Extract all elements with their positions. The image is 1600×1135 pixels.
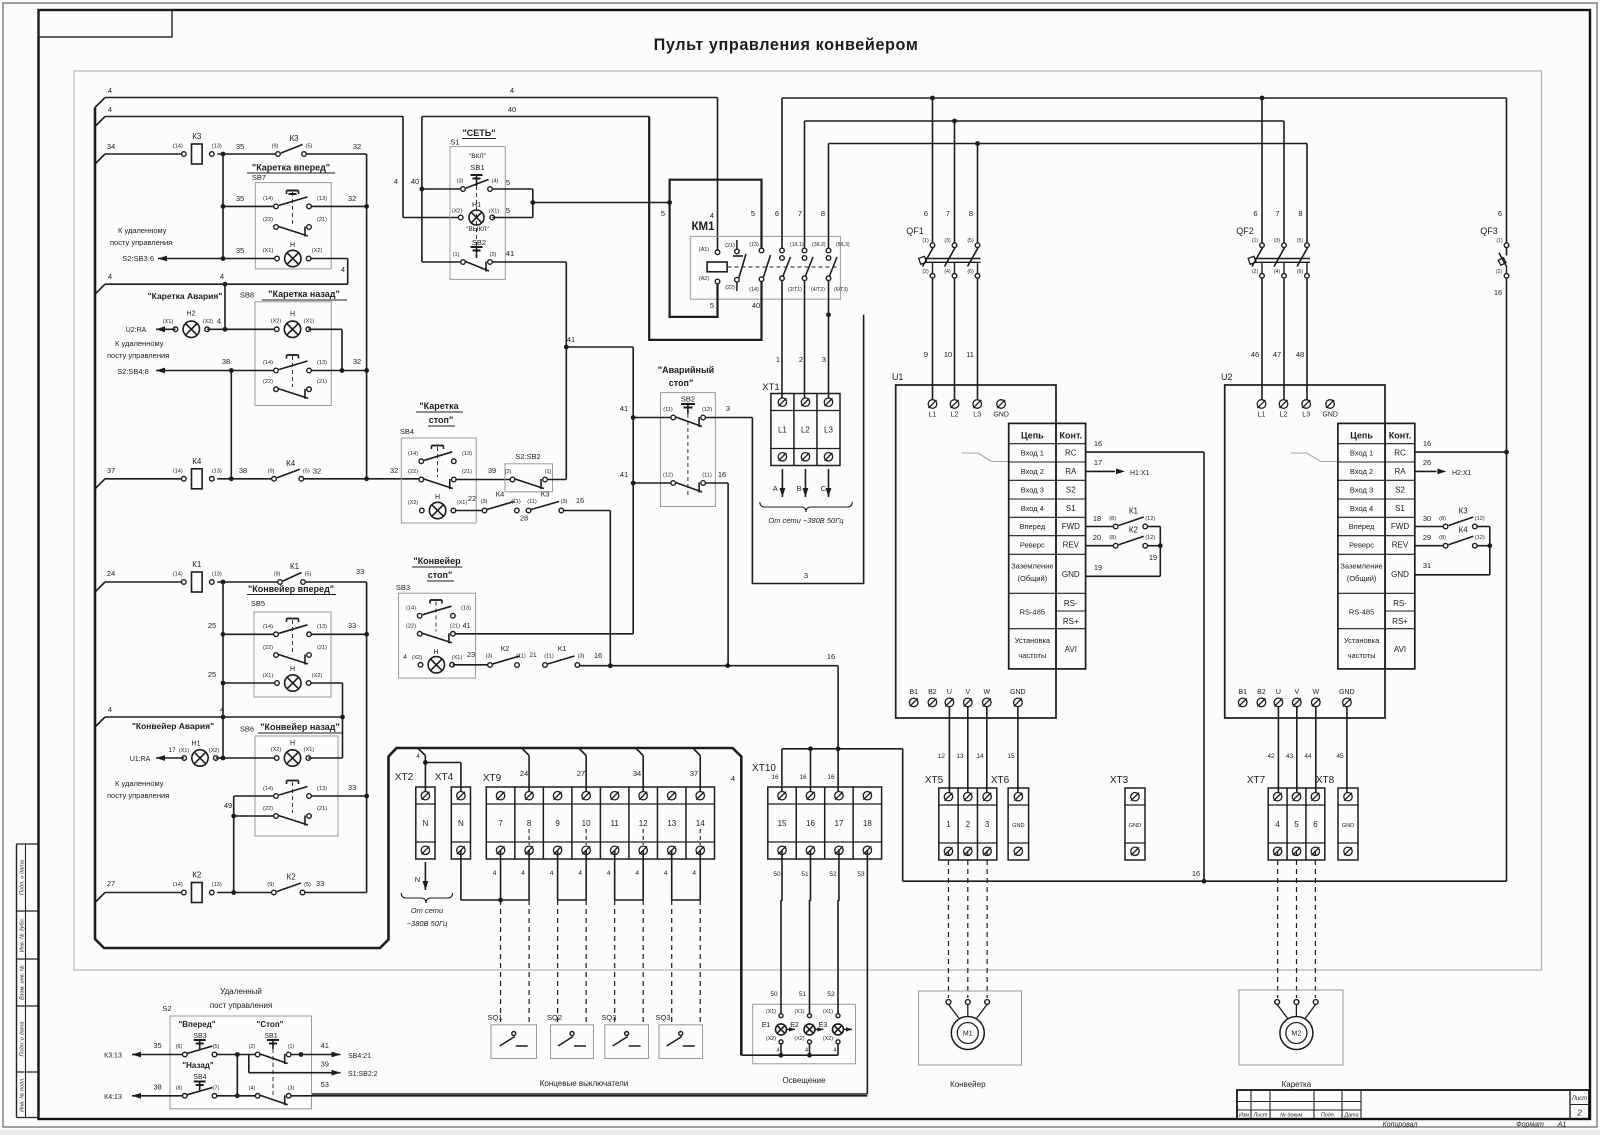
svg-text:(Х2): (Х2) <box>794 1036 804 1042</box>
svg-text:А1: А1 <box>1557 1122 1567 1129</box>
svg-text:L2: L2 <box>951 412 959 419</box>
svg-text:S2: S2 <box>1066 485 1076 494</box>
svg-text:частоты: частоты <box>1018 651 1046 660</box>
svg-text:Конвейер: Конвейер <box>950 1080 986 1089</box>
svg-text:"Стоп": "Стоп" <box>257 1020 284 1029</box>
svg-text:Е2: Е2 <box>790 1022 799 1029</box>
svg-text:К2: К2 <box>501 644 510 653</box>
svg-text:(14): (14) <box>263 196 273 202</box>
svg-text:33: 33 <box>348 621 356 630</box>
svg-text:24: 24 <box>107 569 115 578</box>
svg-text:REV: REV <box>1392 541 1409 550</box>
svg-text:S1:SB2:2: S1:SB2:2 <box>348 1071 378 1078</box>
svg-text:(11): (11) <box>663 407 673 413</box>
svg-text:(2): (2) <box>1252 269 1259 275</box>
svg-text:(9): (9) <box>274 572 281 578</box>
svg-text:Реверс: Реверс <box>1349 541 1374 550</box>
svg-text:N: N <box>423 819 429 828</box>
svg-text:"ВКЛ": "ВКЛ" <box>469 153 487 160</box>
svg-text:N: N <box>458 819 464 828</box>
svg-text:(13): (13) <box>317 360 327 366</box>
svg-text:(2): (2) <box>922 269 929 275</box>
svg-text:Н: Н <box>290 666 295 673</box>
svg-text:S1: S1 <box>450 138 459 147</box>
svg-text:(4): (4) <box>249 1086 256 1092</box>
svg-text:К4: К4 <box>286 459 296 468</box>
svg-text:(1): (1) <box>545 469 552 475</box>
svg-text:(Х1): (Х1) <box>823 1009 833 1015</box>
svg-text:(5): (5) <box>306 144 313 150</box>
svg-text:(6): (6) <box>176 1044 183 1050</box>
svg-text:"Каретка Авария": "Каретка Авария" <box>148 291 223 301</box>
svg-text:19: 19 <box>1149 553 1157 562</box>
svg-text:(3): (3) <box>288 1086 295 1092</box>
svg-text:(8): (8) <box>176 1086 183 1092</box>
svg-text:5: 5 <box>1294 820 1299 829</box>
svg-text:(3/L2): (3/L2) <box>812 242 826 248</box>
svg-text:4: 4 <box>510 86 514 95</box>
svg-text:М2: М2 <box>1292 1031 1302 1038</box>
svg-text:ХТ2: ХТ2 <box>395 772 414 783</box>
svg-text:(9): (9) <box>267 882 274 888</box>
svg-text:(22): (22) <box>408 469 418 475</box>
svg-text:GND: GND <box>1012 823 1024 829</box>
svg-text:Инв. № дубл.: Инв. № дубл. <box>20 918 26 952</box>
svg-text:L3: L3 <box>1302 412 1310 419</box>
svg-text:(13): (13) <box>749 242 759 248</box>
svg-text:41: 41 <box>620 470 628 479</box>
svg-text:4: 4 <box>692 870 696 877</box>
svg-text:(13): (13) <box>317 786 327 792</box>
svg-text:16: 16 <box>718 470 726 479</box>
svg-text:Цепь: Цепь <box>1350 431 1373 441</box>
svg-text:L1: L1 <box>1258 412 1266 419</box>
svg-text:48: 48 <box>1296 350 1304 359</box>
svg-text:(12): (12) <box>1475 516 1485 522</box>
svg-text:К3:13: К3:13 <box>104 1053 122 1060</box>
svg-text:19: 19 <box>1094 563 1102 572</box>
svg-text:U2:RA: U2:RA <box>126 327 147 334</box>
svg-text:RC: RC <box>1394 449 1406 458</box>
svg-text:(14): (14) <box>263 786 273 792</box>
svg-text:37: 37 <box>107 466 115 475</box>
svg-text:М1: М1 <box>963 1031 973 1038</box>
svg-text:V: V <box>1294 689 1299 696</box>
svg-text:43: 43 <box>1286 753 1294 760</box>
svg-text:33: 33 <box>316 879 324 888</box>
svg-text:"СЕТЬ": "СЕТЬ" <box>462 128 495 138</box>
svg-text:40: 40 <box>752 301 760 310</box>
svg-text:(8): (8) <box>1439 535 1446 541</box>
svg-text:17: 17 <box>168 747 176 754</box>
svg-text:Вперед: Вперед <box>1019 522 1045 531</box>
svg-text:Вход 3: Вход 3 <box>1021 485 1044 494</box>
svg-text:(3): (3) <box>944 238 951 244</box>
svg-text:25: 25 <box>208 670 216 679</box>
svg-text:4: 4 <box>220 272 224 281</box>
svg-text:(2): (2) <box>1496 269 1503 275</box>
svg-text:"Вперед": "Вперед" <box>178 1020 215 1029</box>
svg-text:Установка: Установка <box>1344 636 1380 645</box>
svg-text:51: 51 <box>801 871 809 878</box>
svg-text:3: 3 <box>822 355 826 364</box>
svg-text:U2: U2 <box>1221 372 1233 382</box>
svg-text:4: 4 <box>731 774 735 783</box>
svg-text:"Конвейер Авария": "Конвейер Авария" <box>132 721 214 731</box>
svg-text:L3: L3 <box>824 426 833 435</box>
svg-text:Вход 1: Вход 1 <box>1350 449 1373 458</box>
svg-text:(14): (14) <box>173 882 183 888</box>
svg-text:(8): (8) <box>1109 516 1116 522</box>
svg-text:(13): (13) <box>212 882 222 888</box>
svg-text:Н1:Х1: Н1:Х1 <box>1130 470 1150 477</box>
svg-text:(21): (21) <box>462 469 472 475</box>
svg-text:5: 5 <box>506 178 510 187</box>
svg-text:(Х1): (Х1) <box>304 747 315 753</box>
svg-text:ХТ7: ХТ7 <box>1247 775 1266 786</box>
svg-text:К удаленному: К удаленному <box>115 339 164 348</box>
svg-text:REV: REV <box>1063 541 1080 550</box>
svg-text:34: 34 <box>633 769 641 778</box>
svg-text:V: V <box>965 689 970 696</box>
svg-text:41: 41 <box>462 621 470 630</box>
svg-text:8: 8 <box>527 819 532 828</box>
svg-text:Дата: Дата <box>1343 1113 1358 1119</box>
svg-text:(2): (2) <box>490 252 497 258</box>
svg-text:(Х2): (Х2) <box>312 673 323 679</box>
svg-text:"Конвейер вперед": "Конвейер вперед" <box>248 584 334 594</box>
svg-text:3: 3 <box>726 404 730 413</box>
svg-text:(Х1): (Х1) <box>794 1009 804 1015</box>
svg-text:35: 35 <box>236 246 244 255</box>
svg-text:(А1): (А1) <box>699 247 709 253</box>
svg-text:Концевые выключатели: Концевые выключатели <box>540 1079 629 1088</box>
svg-text:6: 6 <box>1253 209 1257 218</box>
svg-text:4: 4 <box>217 317 221 326</box>
svg-text:GND: GND <box>1062 570 1080 579</box>
svg-text:(Х2): (Х2) <box>452 209 463 215</box>
svg-text:S2: S2 <box>162 1004 171 1013</box>
svg-text:SQ1: SQ1 <box>487 1013 502 1022</box>
svg-text:38: 38 <box>239 466 247 475</box>
svg-text:50: 50 <box>773 871 781 878</box>
svg-text:6: 6 <box>775 209 779 218</box>
svg-text:SQ3: SQ3 <box>655 1013 670 1022</box>
svg-text:SB2: SB2 <box>681 395 695 404</box>
svg-text:13: 13 <box>667 819 676 828</box>
svg-text:(Общий): (Общий) <box>1018 574 1048 583</box>
svg-text:1: 1 <box>776 355 780 364</box>
svg-text:(12): (12) <box>1145 535 1155 541</box>
svg-text:AVI: AVI <box>1394 645 1406 654</box>
svg-text:К4: К4 <box>192 457 202 466</box>
svg-text:Вход 4: Вход 4 <box>1350 504 1373 513</box>
svg-text:(2/Т1): (2/Т1) <box>788 287 802 293</box>
svg-text:(Общий): (Общий) <box>1347 574 1377 583</box>
svg-text:(1): (1) <box>288 1044 295 1050</box>
svg-text:(14): (14) <box>173 572 183 578</box>
svg-text:(22): (22) <box>725 285 735 291</box>
svg-text:(Х2): (Х2) <box>312 248 323 254</box>
svg-text:(2): (2) <box>505 469 512 475</box>
svg-text:К3: К3 <box>541 490 550 499</box>
svg-text:FWD: FWD <box>1391 522 1409 531</box>
svg-text:37: 37 <box>690 769 698 778</box>
svg-text:(5/L3): (5/L3) <box>836 242 850 248</box>
svg-text:Н: Н <box>290 242 295 249</box>
svg-text:(Х1): (Х1) <box>179 748 190 754</box>
svg-text:32: 32 <box>353 357 361 366</box>
svg-text:(Х1): (Х1) <box>766 1009 776 1015</box>
svg-text:4: 4 <box>805 1048 809 1054</box>
svg-text:RS-485: RS-485 <box>1349 608 1374 617</box>
svg-text:(1/L1): (1/L1) <box>790 242 804 248</box>
svg-text:(13): (13) <box>461 606 471 612</box>
svg-text:40: 40 <box>411 177 419 186</box>
svg-text:пост управления: пост управления <box>210 1001 272 1010</box>
svg-text:GND: GND <box>1391 570 1409 579</box>
svg-text:17: 17 <box>834 819 843 828</box>
svg-text:4: 4 <box>578 870 582 877</box>
svg-text:Подп. и дата: Подп. и дата <box>20 860 26 895</box>
svg-text:(Х2): (Х2) <box>209 748 220 754</box>
svg-text:21: 21 <box>529 652 537 659</box>
svg-text:Заземление: Заземление <box>1011 562 1053 571</box>
svg-text:4: 4 <box>403 654 407 661</box>
svg-text:А: А <box>773 484 778 493</box>
svg-text:4: 4 <box>220 705 224 714</box>
svg-text:16: 16 <box>1094 439 1102 448</box>
svg-text:42: 42 <box>1267 753 1275 760</box>
svg-text:1: 1 <box>946 820 951 829</box>
svg-text:6: 6 <box>1313 820 1318 829</box>
svg-text:2: 2 <box>966 820 971 829</box>
svg-text:(11): (11) <box>702 473 712 479</box>
svg-text:4: 4 <box>108 86 112 95</box>
svg-text:14: 14 <box>696 819 705 828</box>
svg-text:ХТ5: ХТ5 <box>925 775 944 786</box>
svg-text:38: 38 <box>153 1083 161 1092</box>
svg-text:(Х2): (Х2) <box>823 1036 833 1042</box>
svg-text:(13): (13) <box>212 468 222 474</box>
svg-text:RS-485: RS-485 <box>1020 608 1045 617</box>
svg-text:RS-: RS- <box>1393 599 1407 608</box>
svg-text:9: 9 <box>924 350 928 359</box>
svg-text:Вперед: Вперед <box>1349 522 1375 531</box>
svg-text:(5): (5) <box>304 882 311 888</box>
svg-text:(1): (1) <box>1252 238 1259 244</box>
svg-text:4: 4 <box>416 753 420 760</box>
svg-text:33: 33 <box>356 567 364 576</box>
svg-text:S2: S2 <box>1395 485 1405 494</box>
svg-text:10: 10 <box>944 350 952 359</box>
svg-text:SB4: SB4 <box>400 427 414 436</box>
svg-text:(21): (21) <box>317 217 327 223</box>
svg-text:(Х1): (Х1) <box>304 319 315 325</box>
svg-text:4: 4 <box>341 265 345 274</box>
svg-text:Удаленный: Удаленный <box>220 987 262 996</box>
svg-text:(14): (14) <box>749 287 759 293</box>
svg-text:52: 52 <box>827 991 835 998</box>
svg-text:Вход 3: Вход 3 <box>1350 485 1373 494</box>
svg-text:4: 4 <box>108 272 112 281</box>
svg-text:SB6: SB6 <box>240 725 254 734</box>
svg-text:(21): (21) <box>317 379 327 385</box>
svg-text:(21): (21) <box>317 645 327 651</box>
svg-text:16: 16 <box>827 774 835 781</box>
svg-text:30: 30 <box>1423 514 1431 523</box>
svg-text:10: 10 <box>582 819 591 828</box>
svg-text:GND: GND <box>1322 412 1338 419</box>
svg-text:Н: Н <box>433 649 438 656</box>
svg-text:29: 29 <box>1423 533 1431 542</box>
svg-text:7: 7 <box>1275 209 1279 218</box>
svg-text:(3): (3) <box>578 654 585 660</box>
svg-text:Вход 2: Вход 2 <box>1350 467 1373 476</box>
svg-text:53: 53 <box>857 871 865 878</box>
svg-text:Заземление: Заземление <box>1340 562 1382 571</box>
svg-text:К3: К3 <box>192 132 202 141</box>
svg-text:(Х1): (Х1) <box>163 319 174 325</box>
svg-text:"Конвейер назад": "Конвейер назад" <box>260 722 340 732</box>
svg-text:ХТ3: ХТ3 <box>1110 775 1129 786</box>
svg-text:45: 45 <box>1336 753 1344 760</box>
svg-text:Е3: Е3 <box>819 1022 828 1029</box>
svg-text:(22): (22) <box>263 217 273 223</box>
svg-text:16: 16 <box>771 774 779 781</box>
svg-text:27: 27 <box>577 769 585 778</box>
svg-text:(5): (5) <box>303 468 310 474</box>
svg-text:8: 8 <box>1298 209 1302 218</box>
svg-text:4: 4 <box>394 177 398 186</box>
svg-text:(8): (8) <box>1109 535 1116 541</box>
svg-text:посту управления: посту управления <box>107 351 169 360</box>
svg-text:(14): (14) <box>263 624 273 630</box>
svg-text:(13): (13) <box>212 572 222 578</box>
svg-text:52: 52 <box>829 871 837 878</box>
svg-text:18: 18 <box>1093 514 1101 523</box>
svg-text:С: С <box>821 484 827 493</box>
svg-text:Вход 4: Вход 4 <box>1021 504 1044 513</box>
svg-text:Е1: Е1 <box>762 1022 771 1029</box>
svg-text:(7): (7) <box>213 1086 220 1092</box>
svg-text:(22): (22) <box>406 624 416 630</box>
svg-text:50: 50 <box>770 991 778 998</box>
svg-text:Вход 2: Вход 2 <box>1021 467 1044 476</box>
svg-text:Лист: Лист <box>1571 1096 1587 1102</box>
svg-text:(Х2): (Х2) <box>766 1036 776 1042</box>
svg-text:(13): (13) <box>462 451 472 457</box>
svg-text:SB4: SB4 <box>193 1074 206 1081</box>
svg-text:20: 20 <box>1093 533 1101 542</box>
svg-text:SB7: SB7 <box>252 173 266 182</box>
svg-text:35: 35 <box>236 194 244 203</box>
svg-text:16: 16 <box>806 819 815 828</box>
svg-text:32: 32 <box>353 142 361 151</box>
svg-text:4: 4 <box>493 870 497 877</box>
svg-text:(13): (13) <box>317 624 327 630</box>
svg-text:К2: К2 <box>287 873 297 882</box>
svg-text:Реверс: Реверс <box>1020 541 1045 550</box>
svg-text:(4): (4) <box>492 179 499 185</box>
svg-text:4: 4 <box>521 870 525 877</box>
svg-text:U1:RA: U1:RA <box>130 756 151 763</box>
svg-text:S1: S1 <box>1066 504 1076 513</box>
svg-text:QF3: QF3 <box>1480 226 1498 236</box>
svg-text:S2:SB2: S2:SB2 <box>515 452 540 461</box>
svg-text:(4): (4) <box>1274 269 1281 275</box>
svg-text:33: 33 <box>348 783 356 792</box>
svg-text:RS+: RS+ <box>1063 617 1079 626</box>
svg-text:Изм: Изм <box>1239 1113 1249 1119</box>
svg-text:35: 35 <box>236 142 244 151</box>
svg-text:ХТ10: ХТ10 <box>752 763 776 774</box>
svg-text:Пульт управления конвейером: Пульт управления конвейером <box>654 36 919 54</box>
svg-text:ХТ4: ХТ4 <box>435 772 454 783</box>
svg-text:8: 8 <box>821 209 825 218</box>
svg-text:31: 31 <box>1423 561 1431 570</box>
svg-text:34: 34 <box>107 142 115 151</box>
svg-text:SB2: SB2 <box>472 238 486 247</box>
svg-text:"Конвейер: "Конвейер <box>413 556 461 566</box>
svg-text:"Каретка: "Каретка <box>419 401 459 411</box>
svg-text:(Х1): (Х1) <box>489 209 500 215</box>
svg-text:16: 16 <box>827 652 835 661</box>
svg-text:4: 4 <box>833 1048 837 1054</box>
svg-text:Вход 1: Вход 1 <box>1021 449 1044 458</box>
svg-text:К4: К4 <box>496 490 505 499</box>
svg-text:~380В 50Гц: ~380В 50Гц <box>407 919 448 928</box>
svg-text:(22): (22) <box>263 379 273 385</box>
svg-text:L2: L2 <box>801 426 810 435</box>
svg-text:(6): (6) <box>1297 269 1304 275</box>
svg-text:16: 16 <box>594 651 602 660</box>
svg-text:(4/Т2): (4/Т2) <box>811 287 825 293</box>
svg-text:(21): (21) <box>317 806 327 812</box>
svg-text:4: 4 <box>776 1048 780 1054</box>
svg-text:Н2:Х1: Н2:Х1 <box>1452 470 1472 477</box>
svg-text:5: 5 <box>661 209 665 218</box>
svg-text:25: 25 <box>208 621 216 630</box>
svg-text:Инв. № подл.: Инв. № подл. <box>20 1077 26 1112</box>
svg-text:(1): (1) <box>922 238 929 244</box>
svg-text:"Каретка вперед": "Каретка вперед" <box>252 163 330 173</box>
svg-text:GND: GND <box>1010 689 1026 696</box>
svg-text:(5): (5) <box>967 238 974 244</box>
svg-text:16: 16 <box>576 496 584 505</box>
svg-text:38: 38 <box>222 357 230 366</box>
svg-text:U: U <box>1276 689 1281 696</box>
svg-text:SB8: SB8 <box>240 291 254 300</box>
svg-text:(12): (12) <box>663 473 673 479</box>
svg-text:(1): (1) <box>1496 238 1503 244</box>
svg-text:SB3: SB3 <box>193 1033 206 1040</box>
svg-text:(Х2): (Х2) <box>203 319 214 325</box>
svg-text:32: 32 <box>390 466 398 475</box>
svg-text:К удаленному: К удаленному <box>118 226 167 235</box>
svg-text:GND: GND <box>1342 823 1354 829</box>
svg-text:S2:SB3:6: S2:SB3:6 <box>122 254 154 263</box>
svg-text:(14): (14) <box>263 360 273 366</box>
svg-text:4: 4 <box>710 211 714 220</box>
svg-text:9: 9 <box>555 819 560 828</box>
svg-text:39: 39 <box>321 1060 329 1069</box>
svg-text:"Назад": "Назад" <box>182 1061 214 1070</box>
svg-text:W: W <box>1312 689 1319 696</box>
svg-text:(Х1): (Х1) <box>263 248 274 254</box>
svg-text:Н: Н <box>290 311 295 318</box>
svg-text:4: 4 <box>108 705 112 714</box>
